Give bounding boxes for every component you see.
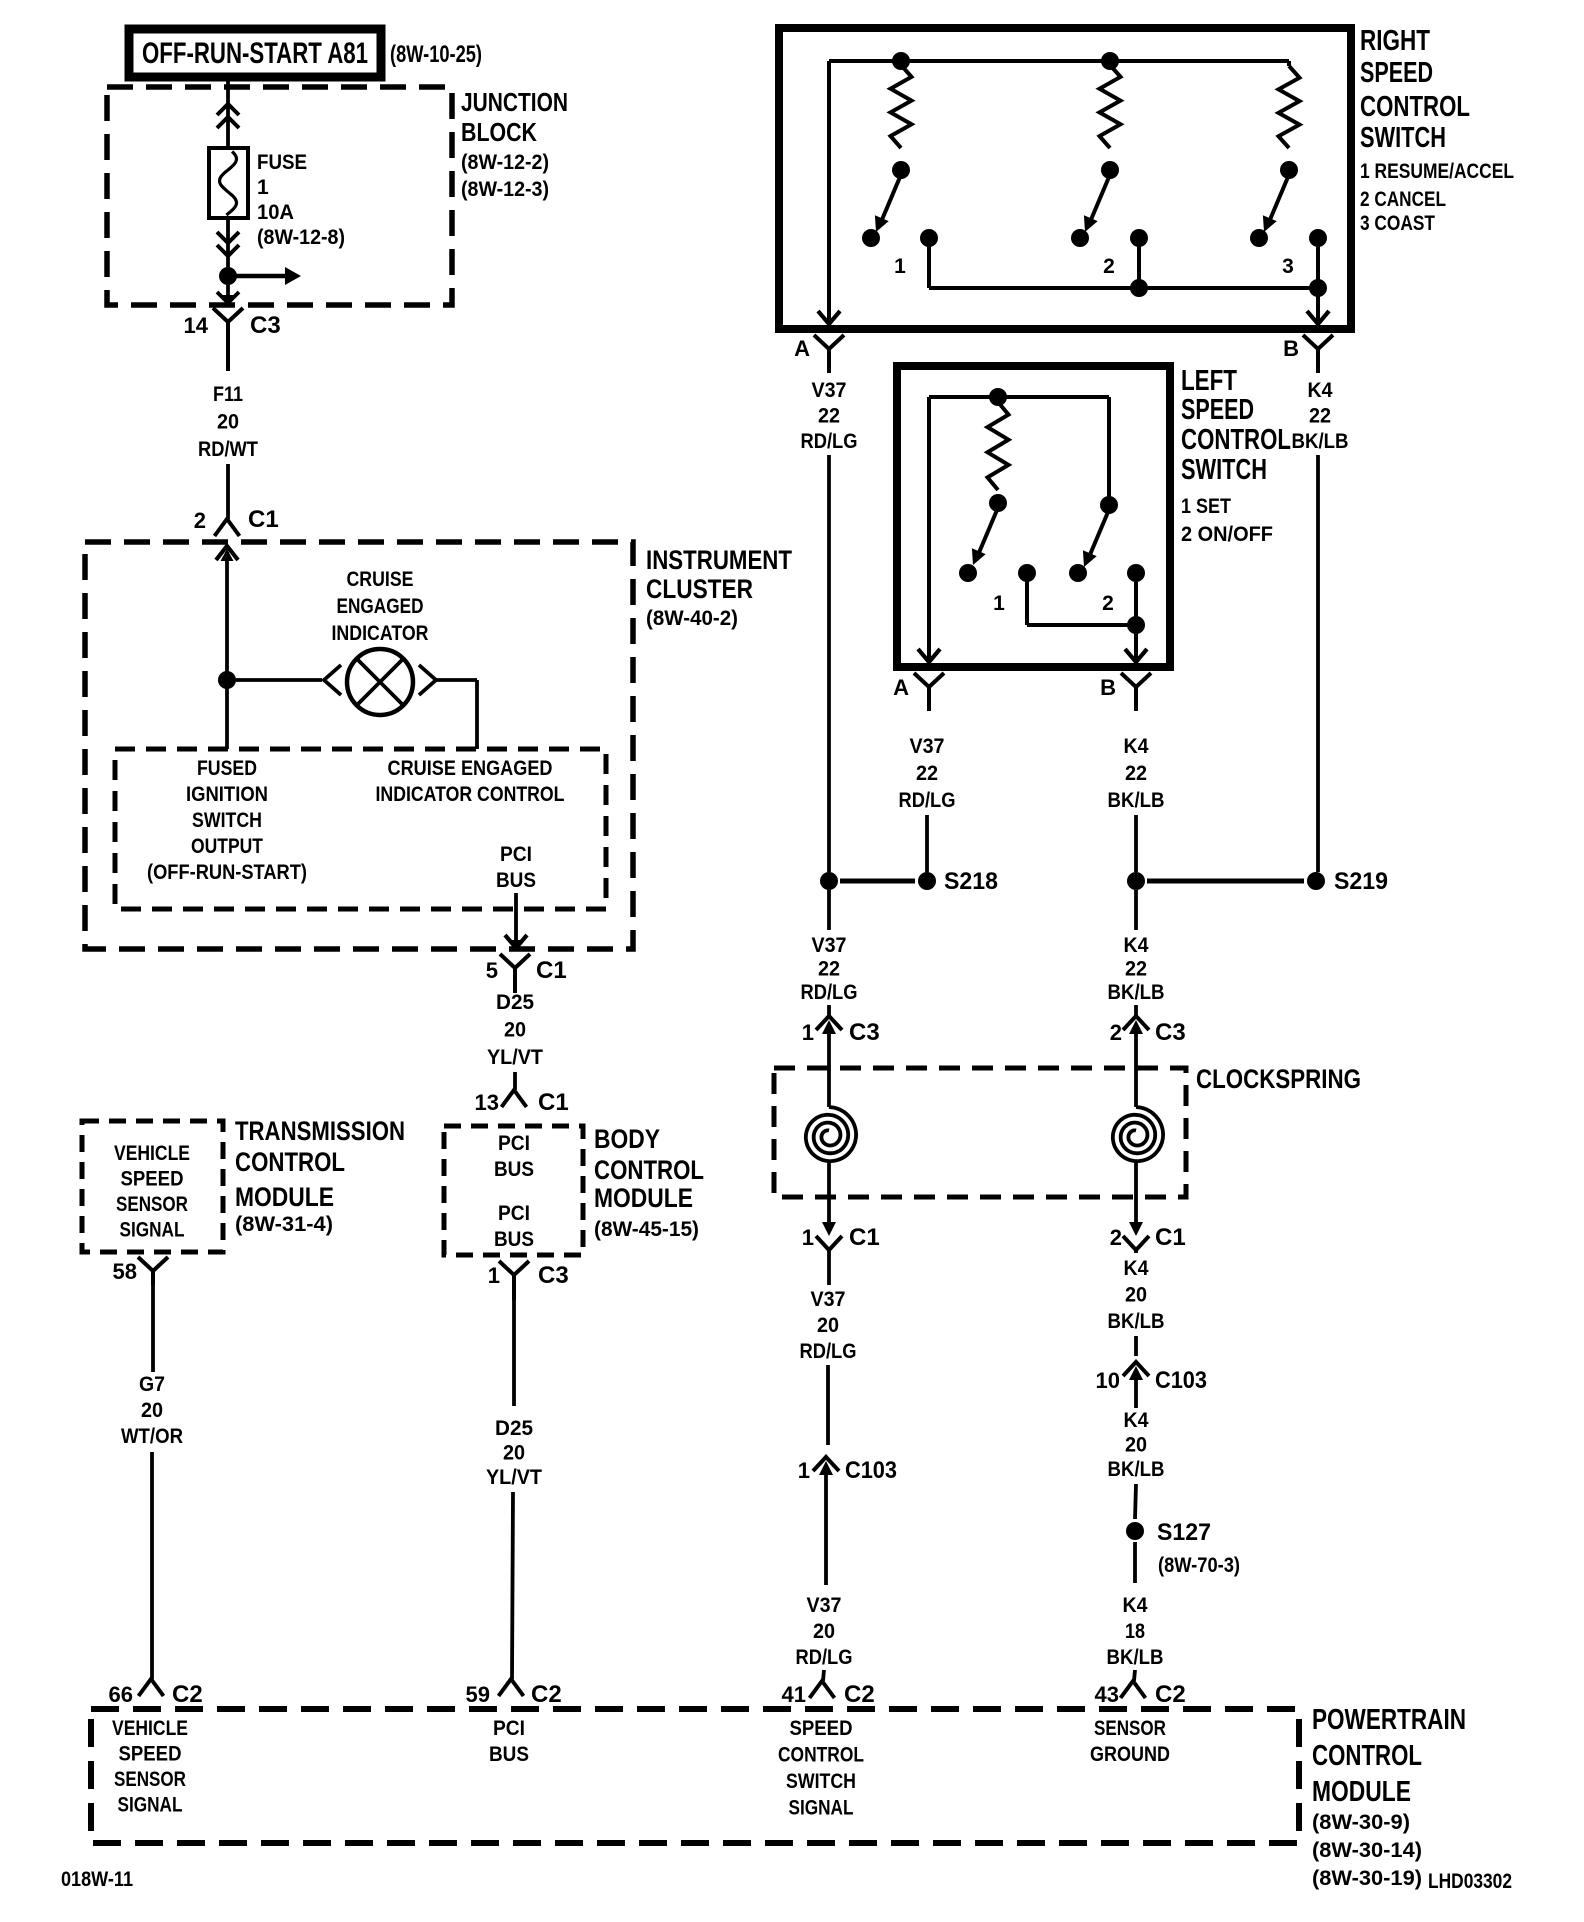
svg-text:ENGAGED: ENGAGED [337,595,424,618]
svg-text:1: 1 [894,255,906,278]
svg-text:3 COAST: 3 COAST [1360,212,1435,235]
svg-text:D25: D25 [496,991,534,1014]
svg-text:PCI: PCI [493,1717,525,1740]
svg-text:20: 20 [813,1620,835,1643]
svg-text:FUSED: FUSED [197,757,257,780]
svg-text:20: 20 [504,1019,526,1042]
svg-text:INDICATOR: INDICATOR [332,622,429,645]
svg-text:SENSOR: SENSOR [114,1768,186,1791]
svg-text:(8W-70-3): (8W-70-3) [1158,1554,1240,1577]
svg-text:V37: V37 [812,934,847,957]
svg-text:CONTROL: CONTROL [235,1147,345,1177]
svg-text:C3: C3 [538,1262,569,1289]
svg-text:RD/LG: RD/LG [801,981,858,1004]
svg-text:CLUSTER: CLUSTER [646,574,753,604]
svg-text:S127: S127 [1157,1519,1211,1546]
svg-text:(8W-10-25): (8W-10-25) [390,41,482,68]
svg-text:SPEED: SPEED [119,1743,182,1766]
svg-text:BK/LB: BK/LB [1292,430,1349,453]
svg-text:2 CANCEL: 2 CANCEL [1360,188,1446,211]
svg-text:BK/LB: BK/LB [1108,981,1165,1004]
svg-text:C2: C2 [844,1681,875,1708]
svg-text:2: 2 [1110,1020,1122,1045]
svg-text:BUS: BUS [494,1228,534,1251]
svg-text:SPEED: SPEED [1181,394,1254,426]
svg-text:B: B [1283,336,1299,361]
svg-text:1: 1 [798,1458,810,1483]
svg-text:BK/LB: BK/LB [1107,1646,1164,1669]
svg-text:VEHICLE: VEHICLE [112,1717,188,1740]
svg-text:TRANSMISSION: TRANSMISSION [235,1116,405,1146]
svg-text:A: A [893,675,909,700]
svg-text:FUSE: FUSE [257,151,307,174]
svg-text:BODY: BODY [594,1124,660,1154]
svg-text:C1: C1 [248,506,279,533]
svg-text:PCI: PCI [498,1132,530,1155]
svg-text:BUS: BUS [496,869,536,892]
svg-text:1 RESUME/ACCEL: 1 RESUME/ACCEL [1360,160,1514,183]
svg-text:MODULE: MODULE [594,1183,693,1213]
svg-text:B: B [1100,675,1116,700]
svg-text:C3: C3 [1155,1019,1186,1046]
svg-text:(8W-12-2): (8W-12-2) [461,151,549,174]
svg-text:C2: C2 [531,1681,562,1708]
svg-text:(8W-30-19): (8W-30-19) [1312,1867,1422,1890]
svg-text:SIGNAL: SIGNAL [120,1219,185,1242]
svg-text:F11: F11 [213,383,243,406]
svg-text:PCI: PCI [500,843,532,866]
svg-text:(8W-40-2): (8W-40-2) [646,607,738,630]
svg-text:018W-11: 018W-11 [61,1868,133,1891]
svg-text:INSTRUMENT: INSTRUMENT [646,545,792,575]
svg-text:BK/LB: BK/LB [1108,1458,1165,1481]
svg-text:1: 1 [993,592,1005,615]
svg-text:(8W-12-3): (8W-12-3) [461,178,549,201]
svg-text:22: 22 [916,762,938,785]
svg-text:S219: S219 [1334,868,1388,895]
svg-text:A: A [794,336,810,361]
svg-text:59: 59 [466,1682,490,1707]
svg-text:C3: C3 [849,1019,880,1046]
svg-text:2: 2 [1103,255,1115,278]
svg-text:RD/LG: RD/LG [899,789,956,812]
svg-text:58: 58 [113,1259,137,1284]
svg-text:C1: C1 [849,1224,880,1251]
svg-text:41: 41 [782,1682,806,1707]
svg-text:(8W-12-8): (8W-12-8) [257,226,345,249]
svg-text:22: 22 [1125,958,1147,981]
svg-text:SWITCH: SWITCH [1181,454,1267,486]
svg-text:20: 20 [1125,1434,1147,1457]
svg-text:10: 10 [1096,1368,1120,1393]
svg-text:LHD03302: LHD03302 [1428,1870,1512,1893]
svg-text:BUS: BUS [489,1743,529,1766]
svg-text:18: 18 [1125,1620,1145,1643]
svg-text:1: 1 [802,1020,814,1045]
svg-text:20: 20 [141,1399,163,1422]
svg-text:CONTROL: CONTROL [1181,424,1291,456]
svg-text:CONTROL: CONTROL [1360,91,1470,123]
svg-text:D25: D25 [495,1417,533,1440]
svg-text:C3: C3 [250,312,281,339]
svg-text:C103: C103 [845,1457,897,1484]
svg-text:SPEED: SPEED [1360,57,1433,89]
svg-text:13: 13 [475,1090,499,1115]
svg-text:1: 1 [257,176,269,199]
svg-text:1: 1 [488,1263,500,1288]
svg-text:RD/WT: RD/WT [198,438,258,461]
svg-text:(8W-30-14): (8W-30-14) [1312,1839,1422,1862]
svg-text:5: 5 [486,958,498,983]
svg-text:OUTPUT: OUTPUT [191,835,263,858]
svg-text:SENSOR: SENSOR [1094,1717,1166,1740]
svg-text:SWITCH: SWITCH [786,1770,856,1793]
svg-text:(8W-45-15): (8W-45-15) [594,1218,699,1241]
svg-text:66: 66 [109,1682,133,1707]
svg-text:K4: K4 [1124,1409,1149,1432]
svg-text:22: 22 [818,405,840,428]
svg-text:SENSOR: SENSOR [116,1193,188,1216]
svg-text:LEFT: LEFT [1181,365,1237,397]
svg-text:20: 20 [817,1314,839,1337]
svg-text:22: 22 [1309,405,1331,428]
svg-text:20: 20 [217,411,239,434]
svg-text:G7: G7 [139,1373,165,1396]
svg-text:MODULE: MODULE [235,1182,334,1212]
svg-text:WT/OR: WT/OR [121,1425,183,1448]
svg-text:JUNCTION: JUNCTION [461,87,568,117]
svg-text:14: 14 [184,313,209,338]
svg-text:2: 2 [1102,592,1114,615]
svg-text:20: 20 [503,1442,525,1465]
svg-text:C2: C2 [1155,1681,1186,1708]
svg-text:CONTROL: CONTROL [594,1155,704,1185]
svg-text:CRUISE ENGAGED: CRUISE ENGAGED [388,757,553,780]
svg-text:CLOCKSPRING: CLOCKSPRING [1196,1064,1361,1094]
svg-text:SIGNAL: SIGNAL [118,1794,183,1817]
svg-text:2 ON/OFF: 2 ON/OFF [1181,523,1273,546]
svg-text:BUS: BUS [494,1158,534,1181]
svg-text:K4: K4 [1308,379,1333,402]
svg-text:20: 20 [1125,1284,1147,1307]
svg-text:VEHICLE: VEHICLE [114,1142,190,1165]
svg-text:V37: V37 [910,735,945,758]
svg-text:K4: K4 [1124,1257,1149,1280]
svg-text:CONTROL: CONTROL [1312,1740,1422,1772]
svg-text:V37: V37 [807,1594,842,1617]
svg-text:GROUND: GROUND [1090,1743,1170,1766]
svg-text:RD/LG: RD/LG [800,1340,857,1363]
svg-text:(8W-31-4): (8W-31-4) [235,1213,333,1236]
svg-text:43: 43 [1095,1682,1119,1707]
svg-text:K4: K4 [1123,1594,1148,1617]
svg-text:2: 2 [1110,1225,1122,1250]
svg-text:C103: C103 [1155,1367,1207,1394]
svg-text:1 SET: 1 SET [1181,495,1231,518]
svg-text:(8W-30-9): (8W-30-9) [1312,1811,1410,1834]
svg-text:IGNITION: IGNITION [186,783,268,806]
svg-text:SIGNAL: SIGNAL [789,1797,854,1820]
svg-text:C2: C2 [172,1681,203,1708]
svg-text:BK/LB: BK/LB [1108,1310,1165,1333]
svg-text:SPEED: SPEED [790,1717,853,1740]
svg-text:3: 3 [1282,255,1294,278]
svg-text:C1: C1 [1155,1224,1186,1251]
svg-text:S218: S218 [944,868,998,895]
svg-text:POWERTRAIN: POWERTRAIN [1312,1704,1466,1736]
svg-text:CRUISE: CRUISE [347,568,414,591]
svg-text:MODULE: MODULE [1312,1776,1411,1808]
svg-text:PCI: PCI [498,1202,530,1225]
svg-text:2: 2 [194,508,206,533]
svg-text:C1: C1 [536,957,567,984]
svg-text:CONTROL: CONTROL [778,1744,864,1767]
svg-text:K4: K4 [1124,735,1149,758]
svg-text:RD/LG: RD/LG [796,1646,853,1669]
svg-text:OFF-RUN-START A81: OFF-RUN-START A81 [142,37,368,70]
svg-text:YL/VT: YL/VT [487,1046,543,1069]
svg-text:INDICATOR CONTROL: INDICATOR CONTROL [376,783,565,806]
svg-text:22: 22 [818,958,840,981]
svg-text:YL/VT: YL/VT [486,1466,542,1489]
svg-text:RIGHT: RIGHT [1360,25,1430,57]
svg-text:V37: V37 [811,1288,846,1311]
svg-text:BLOCK: BLOCK [461,117,537,147]
svg-text:SWITCH: SWITCH [1360,122,1446,154]
svg-text:BK/LB: BK/LB [1108,789,1165,812]
svg-text:22: 22 [1125,762,1147,785]
svg-text:10A: 10A [257,201,294,224]
svg-text:(OFF-RUN-START): (OFF-RUN-START) [147,861,307,884]
svg-text:K4: K4 [1124,934,1149,957]
svg-text:1: 1 [802,1225,814,1250]
svg-text:SWITCH: SWITCH [192,809,262,832]
svg-text:C1: C1 [538,1089,569,1116]
svg-text:V37: V37 [812,379,847,402]
svg-text:RD/LG: RD/LG [801,430,858,453]
svg-text:SPEED: SPEED [121,1168,184,1191]
